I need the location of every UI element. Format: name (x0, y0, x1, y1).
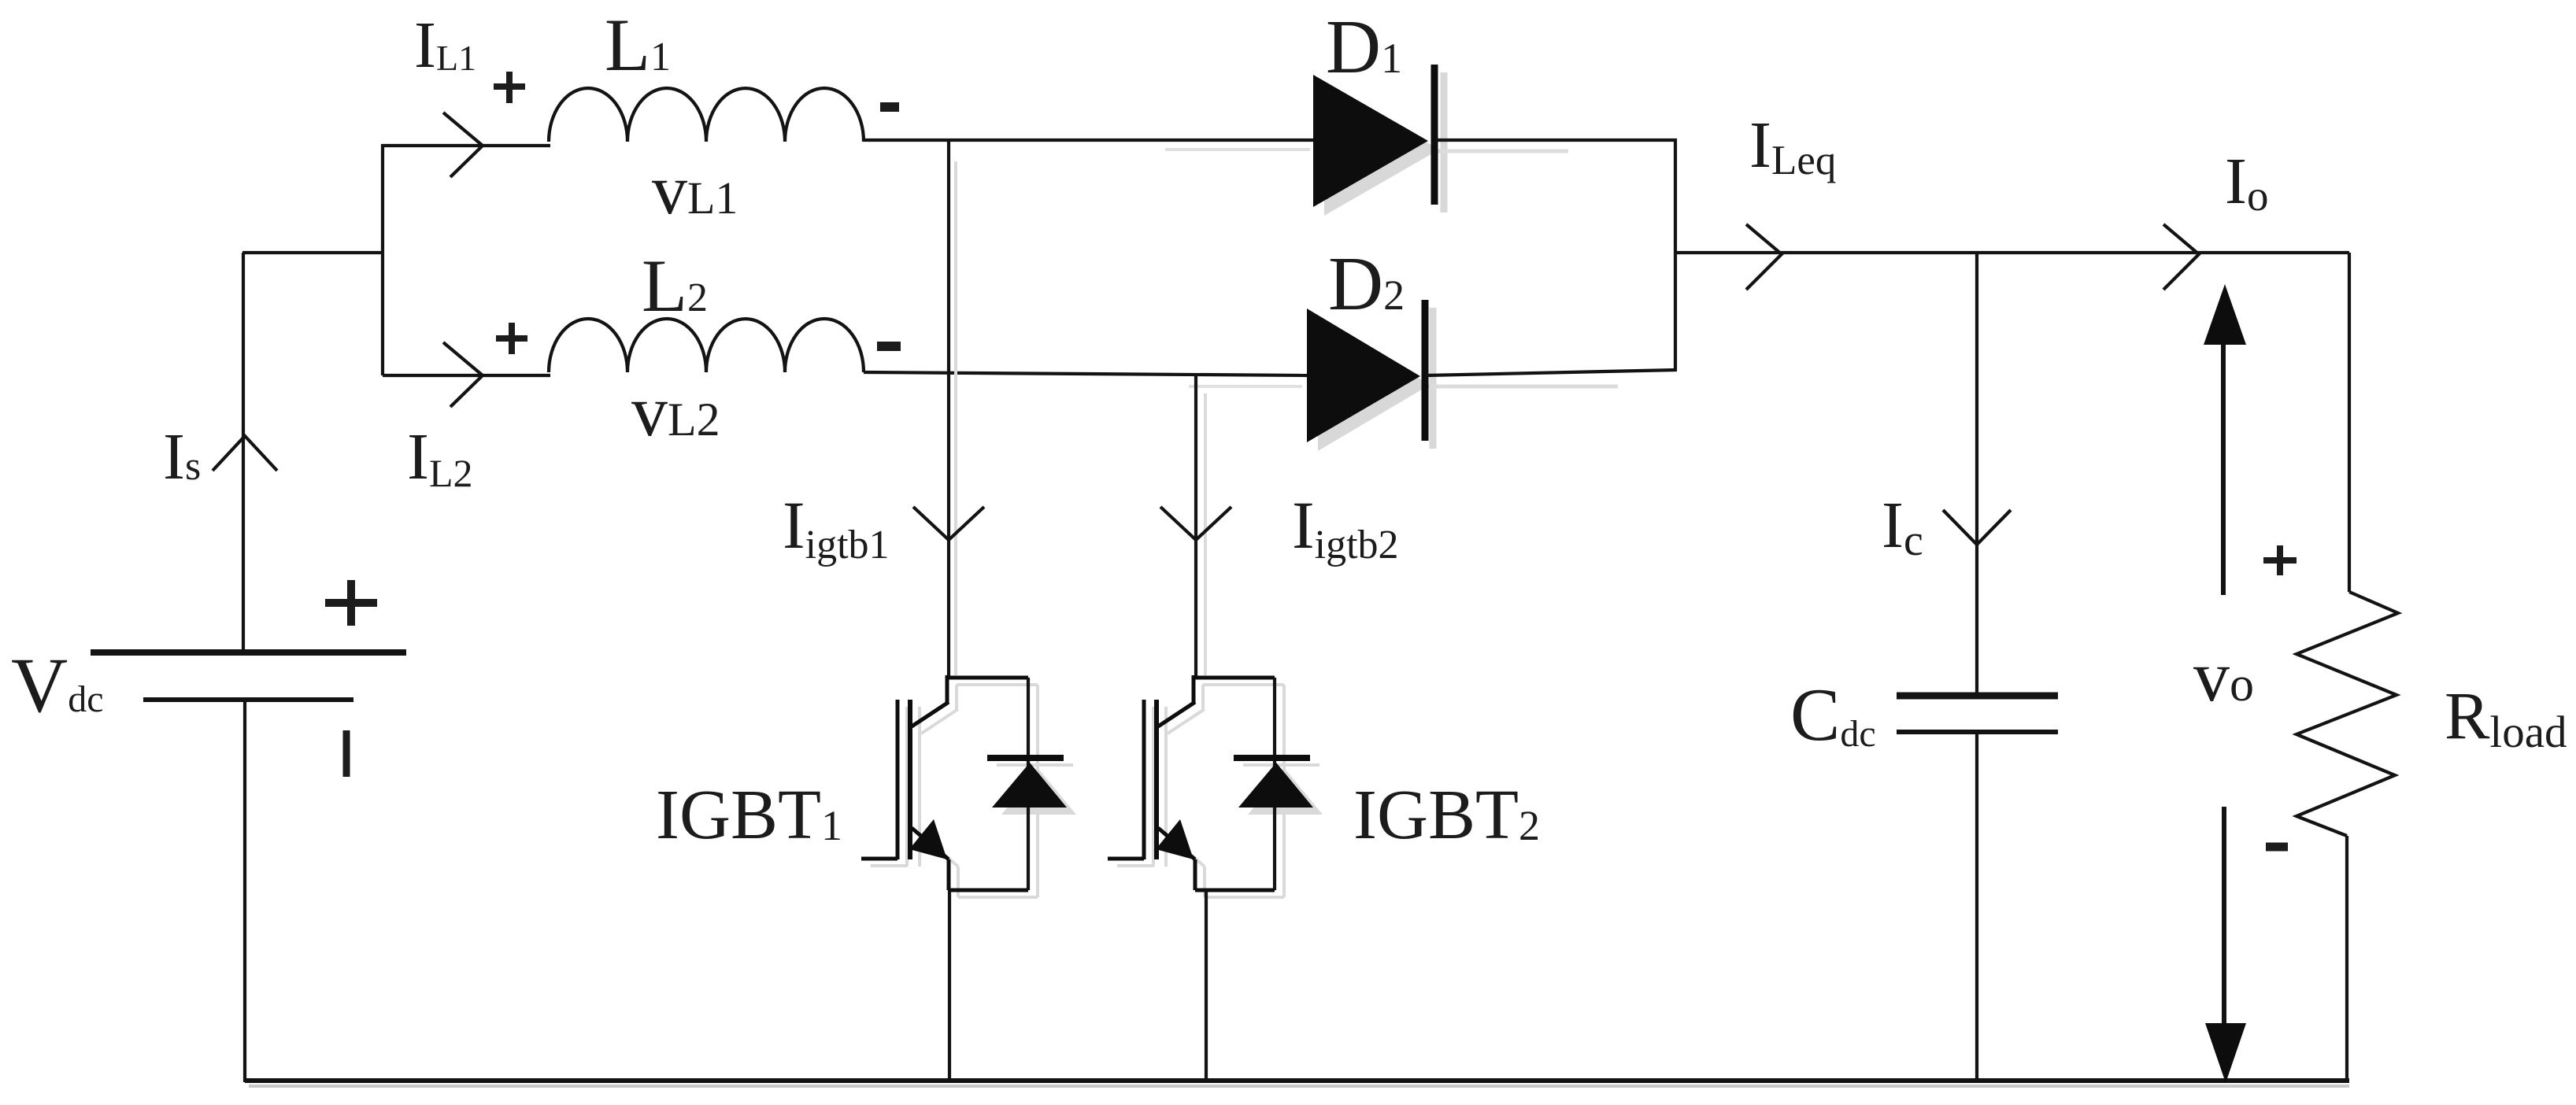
inductor L2 (549, 319, 864, 372)
transistor IGBT1 shadow (871, 685, 1076, 897)
shadow of IGBT2 drop vertical (1204, 394, 1207, 675)
diode IGBT2 antiparallel cathode bar (1234, 755, 1310, 761)
transistor IGBT1 (861, 675, 1028, 890)
battery Vdc top plate (91, 649, 406, 656)
battery plus sign (325, 580, 377, 626)
transistor IGBT1 emitter arrow (909, 819, 947, 859)
diode IGBT1 antiparallel cathode bar (987, 755, 1064, 761)
arrow: Iigtb2 chevron (1160, 507, 1231, 540)
arrow: Iigtb1 chevron (913, 507, 984, 540)
wire: D2 cathode to bridge (1427, 370, 1677, 375)
label plus VL2 (496, 323, 527, 354)
wire: load branch lower vertical (2345, 836, 2348, 1082)
battery Vdc bottom plate (143, 697, 353, 702)
wire: inductor split vertical (381, 144, 384, 375)
wire: L2 input segment (383, 374, 550, 377)
label minus after L2 (877, 342, 901, 351)
arrow: IL1 current chevron (443, 113, 483, 177)
inductor L1 (549, 88, 864, 142)
wire: L2 to D2 (864, 372, 1307, 375)
transistor IGBT2 (1108, 675, 1275, 890)
resistor Rload (2297, 592, 2398, 836)
wire: Vdc negative bus vertical (243, 700, 246, 1082)
battery minus tick (343, 730, 350, 777)
shadow of wire at D2 anode (1189, 385, 1302, 388)
svg-text:IGBT2: IGBT2 (1353, 776, 1540, 854)
wire: bottom return bus (245, 1078, 2349, 1083)
wire: output top rail (1675, 251, 2349, 254)
arrow: Io chevron (2163, 224, 2199, 290)
wire: IGBT2 emitter to bottom bus (1205, 890, 1208, 1082)
capacitor Cdc bottom plate (1897, 730, 2058, 734)
diode D1 shadow (1324, 72, 1568, 216)
shadow of bottom bus (249, 1085, 2349, 1088)
wire: IGBT1 emitter to bottom bus (948, 890, 951, 1082)
arrow: ILeq chevron (1746, 224, 1782, 290)
diode IGBT2 antiparallel triangle (1238, 763, 1313, 807)
label plus VL1 (494, 72, 525, 103)
diode D1 (1313, 75, 1428, 207)
wire: capacitor branch lower (1975, 732, 1978, 1082)
label plus vo (2263, 545, 2297, 575)
wire: bridge right vertical (1674, 139, 1677, 370)
diode D2 (1307, 309, 1420, 442)
capacitor Cdc top plate (1897, 693, 2058, 700)
label minus vo (2266, 843, 2288, 852)
wire: load branch upper vertical (2348, 253, 2351, 592)
diode IGBT1 antiparallel triangle (992, 763, 1067, 807)
shadow of wire at D1 anode (1165, 148, 1310, 151)
wire: IGBT2 drop vertical (1194, 375, 1197, 678)
wire: Vdc positive bus vertical (242, 253, 245, 651)
label minus after L1 (880, 102, 899, 112)
transistor IGBT2 shadow (1117, 685, 1323, 897)
arrow: Ic chevron (1943, 510, 2011, 545)
wire: capacitor branch upper (1975, 253, 1978, 696)
arrow: vo lower (pointing down) (2222, 807, 2226, 1023)
diode IGBT1 antiparallel branch (1027, 678, 1030, 890)
svg-text:IGBT1: IGBT1 (656, 776, 842, 854)
diode D2 cathode bar (1422, 300, 1429, 441)
diode D1 cathode bar (1431, 65, 1438, 205)
arrow: Is current chevron (213, 436, 277, 471)
arrow: IL2 current chevron (443, 342, 483, 407)
diode D2 shadow (1318, 308, 1618, 451)
arrow: vo upper (pointing up) (2221, 345, 2226, 595)
wire: D1 cathode to bridge (1436, 139, 1677, 142)
wire: L1 to D1 (864, 139, 1313, 142)
diode IGBT2 antiparallel branch (1273, 678, 1276, 890)
transistor IGBT2 emitter arrow (1156, 819, 1194, 859)
wire: source bus top horizontal (242, 251, 383, 254)
wire: IGBT1 drop vertical (947, 140, 950, 678)
shadow of IGBT1 drop vertical (954, 161, 957, 675)
wire: L1 input segment (383, 144, 550, 147)
